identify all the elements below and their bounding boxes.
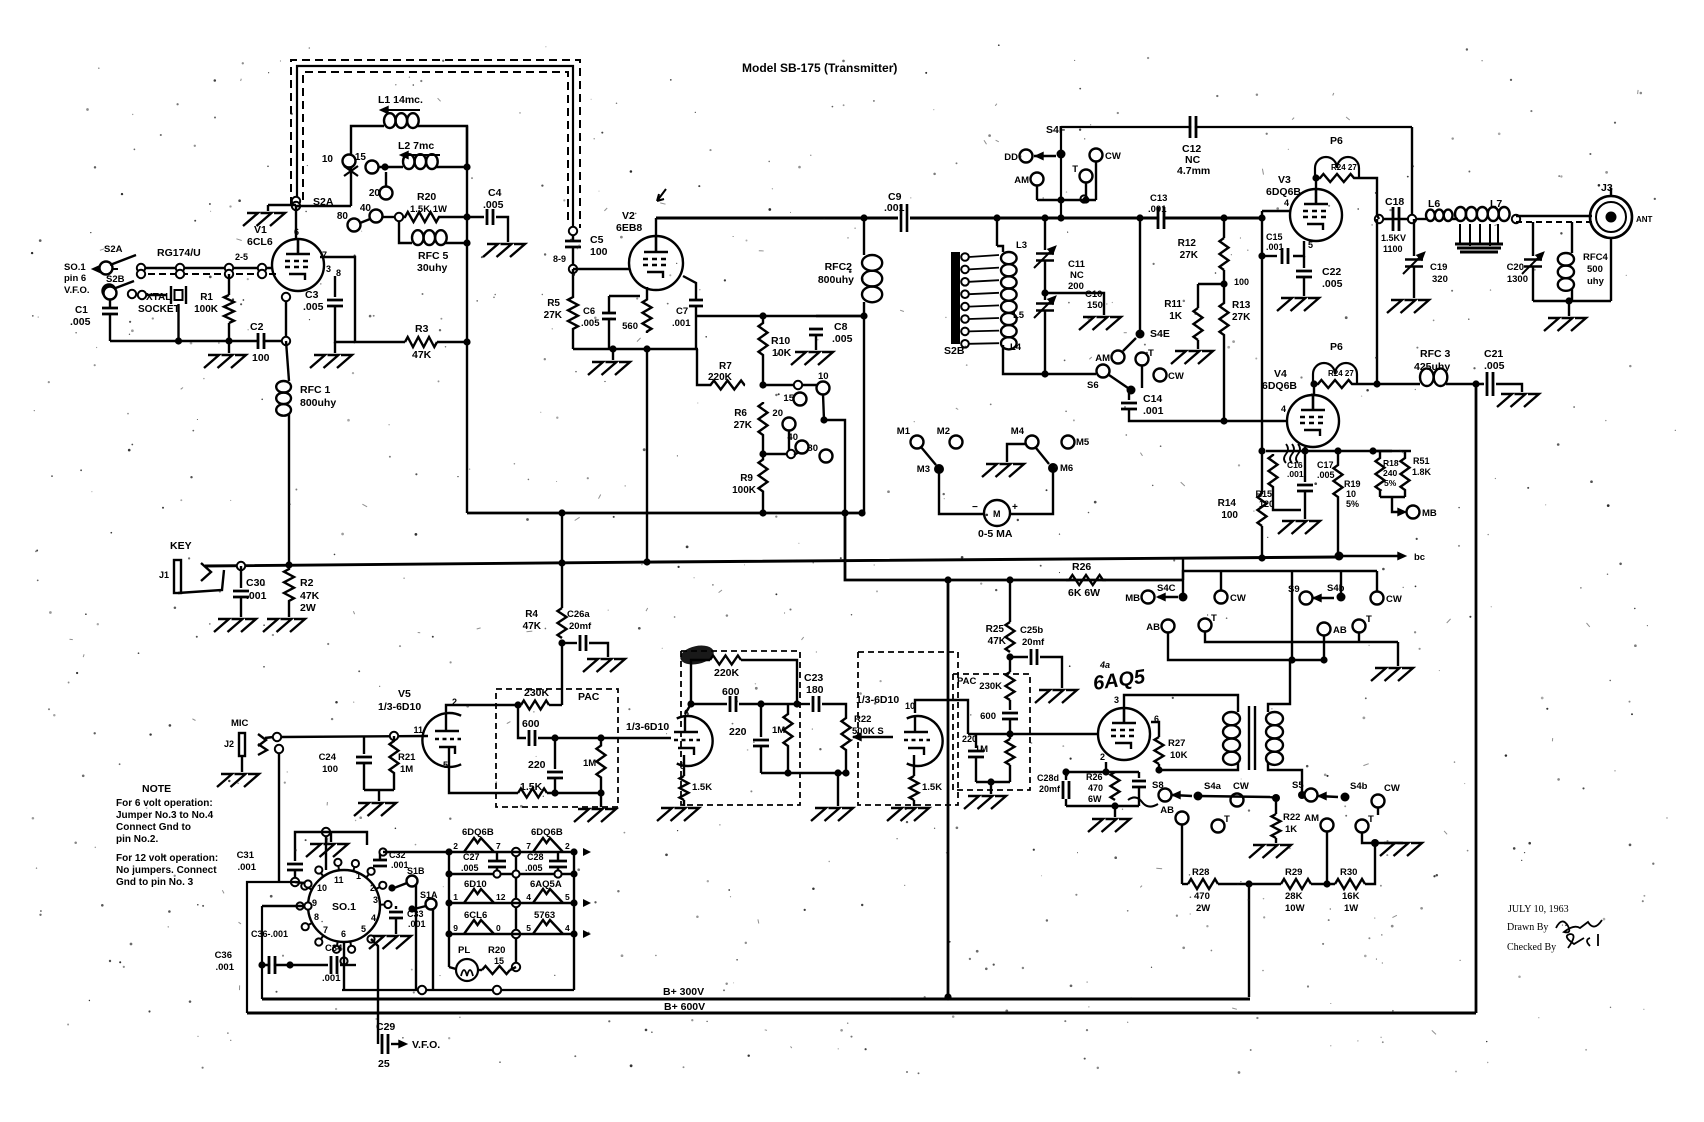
svg-text:C22: C22: [1322, 266, 1341, 278]
junction C36 left: [258, 961, 265, 968]
ground stem R1: [228, 341, 230, 353]
contact S2B 7: [961, 340, 969, 348]
svg-text:C24: C24: [319, 752, 337, 763]
svg-text:S9: S9: [1288, 584, 1300, 595]
wire V4 cathode stem: [1304, 447, 1306, 451]
svg-text:C28: C28: [527, 852, 544, 862]
ground under J2: [217, 774, 259, 787]
resistor R13: [1220, 302, 1229, 336]
junction st2 rail a: [784, 769, 791, 776]
svg-text:6DQ6B: 6DQ6B: [1262, 380, 1297, 392]
svg-text:.005: .005: [1484, 360, 1505, 372]
svg-text:R22: R22: [854, 714, 871, 725]
wire R19 bottom: [1337, 508, 1339, 554]
wire R11 bottom: [1197, 340, 1199, 349]
svg-text:MB: MB: [1125, 593, 1140, 604]
svg-text:R7: R7: [719, 361, 732, 372]
wire CW top stem: [1095, 161, 1097, 200]
svg-text:SO.1: SO.1: [332, 901, 356, 913]
junction bus S2B: [993, 214, 1000, 221]
svg-text:10: 10: [322, 154, 334, 165]
terminal T s5: [1356, 820, 1369, 833]
wire V3V4 plate link: [1376, 219, 1378, 384]
wire output gnd rail: [1533, 300, 1611, 302]
resistor R22 1K: [1272, 814, 1281, 838]
ground under V2 rail: [588, 362, 630, 375]
svg-text:S4F: S4F: [1046, 124, 1066, 136]
svg-text:M1: M1: [897, 426, 911, 437]
svg-text:CW: CW: [1168, 371, 1184, 382]
switch S4a: [1194, 792, 1203, 801]
junction S2A upper: [292, 197, 300, 205]
svg-text:M4: M4: [1011, 426, 1025, 437]
inductor L3 L4 L5: [1001, 252, 1017, 349]
wire C5 bottom: [572, 247, 574, 269]
contact S2B 1: [961, 266, 969, 274]
svg-text:T: T: [1211, 613, 1217, 624]
svg-text:6DQ6B: 6DQ6B: [1266, 186, 1301, 198]
terminal AM top: [1031, 173, 1044, 186]
svg-text:CW: CW: [1105, 151, 1121, 162]
svg-text:L4: L4: [1010, 342, 1022, 353]
svg-text:R1: R1: [200, 292, 213, 303]
wire C31 bottom: [294, 870, 296, 882]
junction row x1305: [1301, 447, 1308, 454]
switch S2B wafer: [951, 252, 960, 344]
junction B300 x948: [944, 993, 951, 1000]
svg-text:5: 5: [1308, 240, 1313, 250]
resistor R11: [1194, 308, 1203, 340]
svg-text:2W: 2W: [300, 602, 316, 614]
arrow h2: [583, 899, 591, 907]
svg-text:10: 10: [317, 883, 327, 893]
junction coax bottom 3: [258, 270, 266, 278]
wire R20b link: [510, 967, 516, 970]
svg-text:2: 2: [370, 883, 375, 893]
svg-text:8-9: 8-9: [553, 254, 566, 264]
wire S2B fan 5: [969, 318, 999, 319]
suppressor P6 V3 coil: [1315, 157, 1359, 178]
junction contact row: [794, 381, 802, 389]
svg-text:800uhy: 800uhy: [300, 397, 336, 409]
resistor R22 pot: [842, 715, 851, 753]
svg-text:P6: P6: [1330, 341, 1343, 353]
switch M3: [934, 464, 944, 474]
wire R6 bottom: [762, 436, 764, 454]
wire st3 grid: [876, 736, 893, 738]
svg-text:C29: C29: [376, 1021, 395, 1033]
svg-text:C18: C18: [1385, 196, 1404, 208]
junction T row: [1082, 196, 1089, 203]
junction h row1 mid: [512, 848, 520, 856]
wire 220 stem pac2: [975, 734, 977, 748]
ground under C30: [214, 619, 256, 632]
ground under R2: [263, 619, 305, 632]
junction grid R21: [390, 732, 398, 740]
ground under R1: [204, 355, 246, 368]
wire screen cap link: [1262, 255, 1277, 257]
wire C14 bottom: [1129, 409, 1284, 421]
wire C7 top: [683, 276, 696, 300]
svg-text:M: M: [993, 509, 1001, 519]
svg-text:6: 6: [341, 929, 346, 939]
wire B600 riser: [1475, 384, 1478, 1013]
ground under C25b: [1035, 690, 1077, 703]
wire grid to V2: [573, 268, 630, 270]
junction crystal bottom: [175, 337, 182, 344]
terminal AB row2: [1162, 620, 1175, 633]
wire C31 top: [294, 845, 296, 861]
junction bottom b: [493, 986, 501, 994]
switch S4b: [1337, 593, 1346, 602]
svg-text:2: 2: [453, 841, 458, 851]
svg-text:PL: PL: [458, 945, 470, 956]
wire T1 secondary top: [1268, 660, 1290, 712]
wire R21 bottom: [393, 778, 395, 790]
resistor 220K st2: [710, 656, 741, 665]
arrow pin4 V2: [657, 189, 666, 201]
wire C26a link: [562, 642, 577, 644]
junction bus C11: [1041, 214, 1048, 221]
wire P6 to C18: [1377, 215, 1379, 219]
svg-text:pin No.2.: pin No.2.: [116, 834, 158, 845]
contact S2B 3: [961, 290, 969, 298]
wire J3 shell down: [1610, 238, 1612, 301]
svg-text:16K: 16K: [1342, 891, 1360, 902]
junction P6 left V4: [1310, 380, 1317, 387]
wire C24 stem: [363, 736, 365, 754]
junction L7 out: [1512, 215, 1520, 223]
junction pac1 out: [597, 734, 604, 741]
wire 220 stem pac1: [554, 738, 556, 769]
svg-text:Connect Gnd to: Connect Gnd to: [116, 822, 191, 833]
wire 1M bottom st2: [787, 756, 789, 773]
inductor L2: [403, 154, 438, 169]
svg-text:R10: R10: [771, 335, 790, 347]
wire pot bottom: [845, 753, 847, 773]
lever M4 M6: [1036, 448, 1049, 464]
junction C14 V4grid: [1220, 417, 1227, 424]
svg-text:C7: C7: [676, 306, 688, 317]
pin donut SO.1 11: [348, 946, 355, 953]
arrowhead pot wiper: [853, 733, 861, 740]
svg-text:9: 9: [453, 923, 458, 933]
junction R20 left: [395, 213, 403, 221]
junction h row2 right: [570, 899, 577, 906]
lever S2A left: [110, 255, 136, 265]
junction st2 right: [793, 700, 800, 707]
wire 6AQ5 plate: [1124, 695, 1238, 712]
wire R28 right: [1218, 883, 1281, 885]
wire R5 top: [572, 269, 574, 296]
svg-text:220K: 220K: [714, 667, 740, 679]
ground stage2 cathode: [657, 808, 699, 821]
svg-text:C6: C6: [583, 306, 595, 317]
wire M3 to meter: [939, 469, 983, 514]
junction J2 b: [275, 745, 283, 753]
variable capacitor C19 arrow: [1417, 252, 1425, 260]
junction busA x845: [841, 509, 848, 516]
svg-text:10K: 10K: [772, 347, 792, 359]
svg-text:Drawn By: Drawn By: [1507, 922, 1548, 933]
svg-text:6D10: 6D10: [464, 879, 487, 890]
svg-text:20mf: 20mf: [1039, 784, 1061, 794]
capacitor C31: [287, 864, 303, 870]
junction coax top 3: [258, 264, 266, 272]
terminal AM s5: [1321, 819, 1334, 832]
capacitor C33: [389, 912, 403, 918]
wire R12 bottom: [1223, 270, 1225, 302]
pin stub SO.1 8: [366, 871, 371, 877]
wire R9 bottom: [762, 497, 764, 513]
junction h row2 mid: [512, 899, 520, 907]
junction R22k top: [1272, 794, 1280, 802]
svg-text:S4E: S4E: [1150, 328, 1170, 340]
svg-text:L2 7mc: L2 7mc: [398, 140, 434, 152]
wire C6 top: [608, 296, 610, 313]
capacitor C13 screen: [1282, 248, 1288, 264]
svg-text:30uhy: 30uhy: [417, 262, 448, 274]
svg-text:5: 5: [526, 923, 531, 933]
wire heater left bus: [448, 852, 450, 967]
dashed box stage2: [681, 651, 800, 805]
arrow L1: [380, 106, 388, 113]
ground under C19: [1387, 300, 1429, 313]
wire DD arrow: [1034, 155, 1056, 157]
terminal CW mid: [1154, 369, 1167, 382]
svg-text:.001: .001: [1266, 242, 1284, 252]
svg-text:−: −: [972, 502, 978, 513]
wire S2B fan 3: [969, 293, 999, 294]
signature checked: [1567, 934, 1598, 948]
arrow L2: [400, 151, 408, 158]
svg-text:M5: M5: [1076, 437, 1090, 448]
junction P6 left V3: [1312, 174, 1319, 181]
svg-text:10K: 10K: [1170, 750, 1188, 761]
svg-text:180: 180: [806, 684, 824, 696]
heater 6DQ6B a: [464, 838, 494, 852]
capacitor C14: [1121, 403, 1137, 409]
wire 80m to 40m: [360, 219, 370, 223]
wire C32 top: [379, 852, 381, 860]
svg-text:M6: M6: [1060, 463, 1073, 474]
wire cathode rail 6AQ5: [1105, 762, 1107, 772]
svg-text:2W: 2W: [1196, 903, 1210, 914]
svg-text:Checked By: Checked By: [1507, 942, 1556, 953]
capacitor C1: [102, 308, 118, 314]
svg-text:R13: R13: [1232, 300, 1251, 311]
wire S2B fan 6: [969, 330, 999, 333]
ground output network: [1544, 318, 1586, 331]
wire heater row1: [449, 851, 574, 853]
resistor 230K pac2: [1006, 672, 1015, 700]
variable capacitor C10: [1034, 298, 1054, 318]
capacitor C8: [809, 329, 823, 335]
svg-text:T: T: [1368, 814, 1374, 825]
resistor R7: [710, 381, 745, 390]
svg-text:4: 4: [526, 892, 531, 902]
wire 600 right pac1: [538, 737, 555, 739]
wire J3 top shell: [1610, 188, 1612, 196]
junction mid rail a: [445, 870, 452, 877]
svg-text:27K: 27K: [734, 420, 753, 431]
shield box outer dashed: [291, 60, 580, 228]
wiper X at 10m: [344, 166, 358, 176]
svg-text:40: 40: [360, 203, 372, 214]
switch S2B left pole: [103, 285, 116, 298]
terminal S8: [1159, 789, 1172, 802]
junction h row1 right: [570, 848, 577, 855]
wire C17 bottom: [1304, 491, 1306, 519]
capacitor C34: [331, 956, 337, 974]
svg-text:0-5 MA: 0-5 MA: [978, 528, 1013, 540]
inductor RFC4: [1558, 253, 1574, 291]
wire S4b stem: [1340, 571, 1342, 593]
ground stem st2: [683, 800, 685, 806]
junction h row3 left: [445, 930, 452, 937]
wire R10 bottom: [762, 362, 764, 385]
wire C30 bottom: [240, 597, 242, 617]
capacitor C21: [1487, 372, 1493, 396]
resistor R12: [1220, 238, 1229, 270]
wire bus to S2B: [996, 218, 998, 246]
pin donut SO.1 3: [296, 902, 303, 909]
ground shield SO1: [306, 844, 348, 857]
wire P6 right V3: [1357, 178, 1377, 215]
pin stub SO.1 5: [319, 870, 324, 877]
capacitor C23: [813, 696, 819, 712]
wire T row2 link: [1205, 631, 1398, 642]
ground after C21: [1497, 394, 1539, 407]
resistor R4: [558, 608, 567, 638]
svg-text:.001: .001: [1143, 405, 1164, 417]
ground 6AQ5 cathode: [1088, 819, 1130, 832]
wire V2 plate up: [655, 218, 657, 236]
junction cath a: [1062, 768, 1069, 775]
svg-text:470: 470: [1088, 783, 1103, 793]
heater 6CL6: [464, 920, 494, 934]
svg-text:10: 10: [818, 371, 829, 382]
junction 230K left: [514, 701, 521, 708]
wire B+600V: [247, 1012, 1476, 1015]
junction V2 rail a: [609, 345, 616, 352]
ground stem pac2: [990, 782, 992, 794]
capacitor C9: [898, 204, 910, 232]
junction 600 out pac1: [551, 734, 558, 741]
wire C17 stem: [1304, 451, 1306, 482]
wire V5 cathode: [449, 747, 518, 793]
capacitor C5: [565, 241, 581, 247]
svg-text:V1: V1: [254, 224, 267, 236]
ground stem audio1: [378, 790, 380, 801]
svg-text:SO.1: SO.1: [64, 262, 86, 273]
jack J2: [239, 733, 267, 756]
wire C27 stem top: [496, 852, 498, 861]
junction S4F: [1057, 150, 1066, 159]
svg-text:40: 40: [787, 432, 798, 443]
wire C27 stem bot: [496, 867, 498, 874]
wire C cath bottom: [1138, 787, 1140, 806]
svg-text:47K: 47K: [412, 349, 432, 361]
arrow h1: [583, 848, 591, 856]
junction RFC5 right: [463, 239, 470, 246]
ground under C24 R21: [354, 803, 396, 816]
svg-text:100: 100: [1221, 510, 1238, 521]
inductor RFC3: [1420, 368, 1447, 386]
wire 600 stem pac1: [518, 705, 526, 738]
junction R29 R30: [1323, 880, 1330, 887]
svg-text:AB: AB: [1146, 622, 1160, 633]
svg-text:25: 25: [378, 1058, 390, 1070]
junction AB2 row: [1320, 656, 1327, 663]
svg-text:.001: .001: [216, 962, 235, 973]
wire RFC4 bottom: [1571, 289, 1573, 301]
svg-text:R25: R25: [986, 624, 1005, 635]
svg-text:No jumpers. Connect: No jumpers. Connect: [116, 865, 217, 876]
wire R18 box top: [1373, 450, 1411, 452]
junction V2 grid: [569, 265, 577, 273]
pin donut SO.1 6: [334, 859, 341, 866]
arrowhead VFO: [399, 1040, 407, 1047]
svg-text:R20: R20: [417, 191, 436, 203]
ground under PAC2: [964, 796, 1006, 809]
svg-text:5%: 5%: [1346, 499, 1359, 509]
resistor R5: [568, 296, 578, 330]
wire T1 secondary bottom: [1268, 762, 1302, 793]
wire C6 top link: [609, 295, 640, 297]
terminal AM mid: [1112, 351, 1125, 364]
wire 10 drive down: [823, 394, 824, 420]
tube V6 6AQ5: [1098, 708, 1150, 760]
svg-text:T: T: [1366, 614, 1372, 625]
wire S4C stem: [1182, 571, 1184, 593]
capacitor C2: [258, 333, 264, 349]
wire S1B down: [415, 884, 417, 990]
svg-text:C31: C31: [237, 850, 255, 861]
resistor R15: [1269, 454, 1278, 488]
wire SO1 top pin: [325, 832, 327, 870]
svg-text:15: 15: [783, 393, 794, 404]
svg-text:5: 5: [565, 892, 570, 902]
svg-text:R26: R26: [1086, 772, 1103, 782]
junction row x1373: [1369, 447, 1376, 454]
svg-text:R2: R2: [300, 577, 314, 589]
svg-text:200: 200: [1068, 281, 1084, 292]
svg-text:R21: R21: [398, 752, 416, 763]
switch M6: [1048, 463, 1058, 473]
svg-text:.005: .005: [1322, 278, 1343, 290]
svg-text:S5: S5: [1292, 780, 1304, 791]
wire x1292 up: [1291, 571, 1293, 660]
svg-text:V.F.O.: V.F.O.: [412, 1039, 440, 1051]
wire R1 bottom: [228, 323, 230, 341]
arrow line L1: [384, 109, 420, 111]
wire R4 column top: [561, 513, 563, 608]
terminal DD: [1020, 150, 1033, 163]
junction drive 420: [820, 416, 827, 423]
ground stem S2A: [267, 205, 269, 211]
wire to 10m contact: [763, 384, 817, 386]
svg-text:20mf: 20mf: [1022, 637, 1045, 648]
junction pac2 bottom: [987, 778, 994, 785]
svg-text:JULY 10, 1963: JULY 10, 1963: [1508, 904, 1569, 915]
tube V1 6CL6: [272, 239, 324, 291]
wire pac2 bottom rail: [976, 781, 1010, 783]
svg-text:1: 1: [356, 871, 361, 881]
wire C20 stem: [1532, 222, 1534, 256]
wire C25b link: [1010, 656, 1028, 658]
junction row x1262: [1258, 447, 1265, 454]
